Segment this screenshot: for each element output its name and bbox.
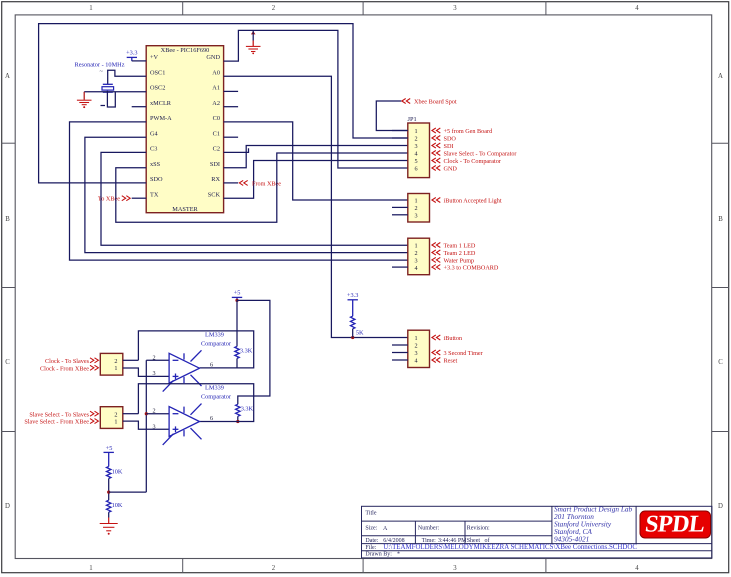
ic U1 MASTER XBee - PIC16F690 [146,46,223,213]
svg-text:iButton: iButton [444,335,463,342]
wire C2 stub [224,148,249,152]
svg-text:Sheet: Sheet [467,538,481,544]
wire comparator2 feedback rail [138,384,253,422]
svg-text:Drawn By:: Drawn By: [365,552,392,558]
svg-text:2: 2 [114,358,117,365]
wire C3 to LED connector pin1 [101,152,408,245]
svg-text:1: 1 [89,5,92,12]
wire A1 stub [224,90,239,92]
svg-text:+5 from Gen Board: +5 from Gen Board [444,128,494,135]
svg-text:Time:: Time: [422,538,436,544]
svg-text:5: 5 [414,158,417,165]
wire R4 bottom [108,512,110,517]
junction divider [107,491,110,494]
svg-text:Number:: Number: [418,525,440,531]
junction A0/5K [351,336,354,339]
svg-text:JP1: JP1 [408,116,417,123]
svg-text:Reset: Reset [444,358,458,365]
svg-text:Team 2 LED: Team 2 LED [444,250,476,257]
wire GND net to JP1 pin6 [224,30,408,168]
svg-text:3: 3 [414,258,417,265]
arrows To XBee [122,196,130,201]
wire xSS to JP1 pin4 [116,153,408,222]
arrows and labels J4 [432,335,483,365]
svg-text:Size:: Size: [365,525,377,531]
svg-text:GND: GND [444,166,458,173]
wire +V stub [132,60,147,62]
svg-text:GND: GND [206,54,220,61]
wire J4 pin3 stub [392,352,408,354]
wire OSC2 [84,91,146,93]
ground at divider [100,518,118,535]
svg-text:MASTER: MASTER [172,206,198,213]
svg-text:2: 2 [414,250,417,257]
wire J2 pin2 stub [392,206,408,208]
svg-text:TX: TX [150,192,159,199]
svg-text:U:\TEAMFOLDERS\MELODYMIKEEZRA: U:\TEAMFOLDERS\MELODYMIKEEZRA SCHEMATICS… [383,544,637,551]
svg-text:+3.3 to COMBOARD: +3.3 to COMBOARD [444,265,499,272]
svg-text:6/4/2008: 6/4/2008 [383,538,404,544]
svg-text:3: 3 [152,370,155,377]
wire RX stub [224,182,239,184]
resistor R2 3.3K [236,404,240,416]
svg-text:SPDL: SPDL [644,512,707,538]
svg-text:OSC2: OSC2 [150,85,165,92]
svg-text:3 Second Timer: 3 Second Timer [444,350,483,357]
svg-text:3: 3 [453,5,457,12]
svg-text:4: 4 [414,358,417,365]
svg-text:Revision:: Revision: [467,525,490,531]
svg-text:3: 3 [414,212,417,219]
svg-text:1: 1 [89,565,92,572]
svg-text:~: ~ [100,68,104,75]
power +5 at comparator pull-ups [232,290,242,301]
svg-text:C3: C3 [150,146,157,153]
wire J5 pin2 stub [123,359,139,361]
svg-text:10K: 10K [112,502,123,509]
power +5 at divider [104,445,114,467]
svg-text:OSC1: OSC1 [150,70,165,77]
wire Vref vertical [145,360,147,492]
ground at resonator [77,92,92,108]
svg-text:3.3K: 3.3K [240,348,253,355]
svg-text:LM339: LM339 [205,385,224,392]
svg-text:+3.3: +3.3 [347,292,358,299]
svg-text:Clock - To Comparator: Clock - To Comparator [444,158,501,165]
SPDL logo [640,511,711,538]
wire SDO to JP1 pin2 [39,24,408,183]
svg-text:A: A [718,73,723,80]
resistor R5 5K [351,316,355,329]
svg-text:1: 1 [414,243,417,250]
wire J6 pin2 stub [123,413,139,415]
resistor R4 10K [107,500,111,512]
svg-text:Xbee Board Spot: Xbee Board Spot [414,99,457,106]
wire Vref from divider [109,491,147,493]
svg-text:Slave Select - To Slaves: Slave Select - To Slaves [29,411,89,418]
svg-text:D: D [5,503,10,510]
svg-text:5K: 5K [356,330,364,337]
arrows and labels JP1 pins [432,128,517,173]
svg-text:+3.3: +3.3 [126,50,137,57]
svg-text:Slave Select - To Comparator: Slave Select - To Comparator [444,151,517,158]
svg-text:+5: +5 [106,445,113,452]
wire A2 stub [224,106,239,108]
svg-text:+V: +V [150,54,159,61]
svg-text:PWM-A: PWM-A [150,115,172,122]
wire J4 pin2 stub [392,344,408,346]
svg-text:of: of [485,537,490,544]
svg-text:iButton Accepted Light: iButton Accepted Light [444,198,502,205]
connector J3 team LEDs [408,238,430,275]
svg-text:A: A [383,526,388,532]
svg-text:2: 2 [272,565,276,572]
svg-text:C1: C1 [213,131,220,138]
arrows XBee Board Spot [402,99,410,104]
svg-text:6: 6 [210,415,213,422]
svg-text:C0: C0 [213,115,220,122]
svg-text:File:: File: [365,545,376,551]
wire J3 pin4 stub [392,266,408,268]
svg-text:SDI: SDI [444,143,454,150]
connector JP1 [408,116,430,178]
wire C0 to iButton light connector pin1 [224,122,408,200]
wire J5 pin1 stub and jog to +input [123,368,169,376]
wire XBee Board Spot to JP1 pin1 [376,101,408,131]
svg-text:Slave Select - From XBee: Slave Select - From XBee [24,419,89,426]
svg-text:1: 1 [414,198,417,205]
arrows and labels J3 [432,243,499,272]
wire JP1 pin2 stub [392,137,408,139]
svg-text:2: 2 [414,205,417,212]
svg-text:4: 4 [635,5,639,12]
op-amp U2B LM339 [152,385,231,445]
power +3.3 at +V [126,50,137,61]
svg-text:Team 1 LED: Team 1 LED [444,243,476,250]
ground on GND net [246,31,261,54]
wire SCK to JP1 pin5 [224,161,408,199]
labels slave select connector [24,411,98,426]
svg-text:4: 4 [414,265,417,272]
svg-text:LM339: LM339 [205,332,224,339]
svg-text:3: 3 [152,423,155,430]
svg-text:C2: C2 [213,146,220,153]
svg-text:+5: +5 [234,290,241,297]
svg-text:Clock - To Slaves: Clock - To Slaves [45,358,90,365]
svg-text:3: 3 [414,143,417,150]
svg-text:1: 1 [414,128,417,135]
junction +5 branch [235,299,238,302]
svg-text:Clock - From XBee: Clock - From XBee [40,365,89,372]
svg-text:xMCLR: xMCLR [150,100,172,107]
svg-text:Water Pump: Water Pump [444,257,475,264]
svg-text:1: 1 [414,335,417,342]
svg-text:A0: A0 [212,70,220,77]
svg-text:6: 6 [414,166,417,173]
arrows From XBee [239,180,247,185]
svg-text:B: B [5,216,10,223]
junction R2/output2 [236,420,239,423]
svg-text:10K: 10K [112,469,123,476]
op-amp U2A LM339 [152,332,231,392]
svg-text:2: 2 [152,354,155,361]
svg-text:XBee - PIC16F690: XBee - PIC16F690 [161,47,210,54]
svg-text:SCK: SCK [208,192,221,199]
svg-text:SDI: SDI [210,161,220,168]
wire R1 bottom to output [236,358,238,368]
svg-text:3:44:46 PM: 3:44:46 PM [438,538,467,544]
resonator Y1 [100,68,114,106]
svg-text:4: 4 [414,151,417,158]
wire SDI to JP1 pin3 [224,146,408,168]
svg-text:A: A [5,73,10,80]
svg-text:SDO: SDO [444,136,457,143]
svg-text:2: 2 [272,5,276,12]
connector J6 slave select [100,407,123,429]
title block [362,505,712,558]
svg-text:D: D [718,503,723,510]
connector J4 iButton [408,330,430,367]
svg-text:B: B [718,216,723,223]
svg-text:A1: A1 [212,85,220,92]
svg-text:Title: Title [365,510,376,516]
wire TX stub [132,197,147,199]
svg-text:*: * [397,552,400,558]
labels clock connector [40,358,98,373]
wire J2 pin3 stub [392,214,408,216]
wire 5K bottom [352,329,354,338]
svg-text:C: C [718,359,723,366]
wire OSC1 [108,70,147,84]
wire C1 stub [224,136,239,138]
svg-text:2: 2 [414,343,417,350]
svg-text:2: 2 [152,408,155,415]
svg-text:2: 2 [414,136,417,143]
svg-text:RX: RX [211,176,220,183]
wire xMCLR stub [132,106,147,108]
connector J2 iButton accepted light [408,194,430,223]
svg-text:3: 3 [453,565,457,572]
wire comparator1 feedback rail [138,331,253,368]
wire +5 to R1 top [236,300,238,346]
wire A0 to iButton connector pin1 [224,76,408,337]
power +3.3 at 5K pull-up [347,292,358,316]
wire comparator2 minus input [146,413,169,415]
svg-text:4: 4 [635,565,639,572]
svg-text:A2: A2 [212,100,220,107]
wire G4 to LED connector pin2 [85,137,408,252]
wire comparator1 minus input [146,359,169,361]
junction Vref comp2 [145,412,148,415]
svg-text:1: 1 [114,419,117,426]
svg-text:SDO: SDO [150,176,163,183]
svg-text:3.3K: 3.3K [241,405,254,412]
svg-text:94305-4021: 94305-4021 [554,535,589,544]
svg-text:Date:: Date: [365,538,378,544]
svg-text:xSS: xSS [150,161,161,168]
wire J4 pin4 stub [392,359,408,361]
wire R3 bottom [108,479,110,501]
wire J6 pin1 stub and jog to +input [123,421,169,429]
svg-text:3: 3 [414,350,417,357]
svg-text:Comparator: Comparator [201,394,232,401]
wire +5 branch to comp2 pull-up [237,300,270,404]
svg-text:2: 2 [114,411,117,418]
connector J5 clock [100,353,123,375]
arrows and label iButton Accepted Light [432,198,502,205]
svg-text:G4: G4 [150,131,159,138]
svg-text:C: C [5,359,10,366]
svg-text:1: 1 [114,365,117,372]
svg-text:6: 6 [210,361,213,368]
wire JP1 pin1 stub [392,130,408,132]
resistor R1 3.3K [235,346,239,358]
wire PWM-A to LED connector pin3 [70,122,408,260]
wire resonator center leg U to OSC2 [107,91,115,107]
svg-text:Comparator: Comparator [201,341,232,348]
resistor R3 10K [107,467,111,479]
wire R2 bottom to output2 [237,416,239,421]
